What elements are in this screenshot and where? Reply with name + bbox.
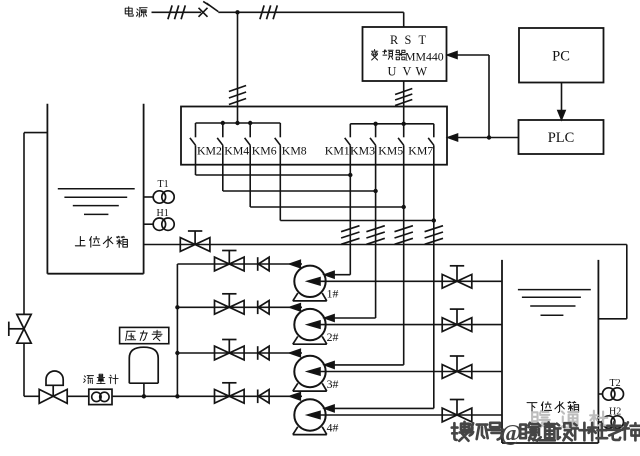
node: junction KM4/KM3 bbox=[373, 189, 377, 193]
node: junction KM2/KM1 bbox=[348, 173, 352, 177]
svg-text:@: @ bbox=[501, 421, 522, 447]
arrow: motor feed into pump 1# bbox=[325, 271, 335, 278]
pins: U V W output labels bbox=[388, 65, 428, 79]
svg-text:PLC: PLC bbox=[548, 130, 575, 146]
pipe: left riser down from tank inlet bbox=[23, 133, 25, 315]
pins: R S T input labels bbox=[390, 33, 427, 47]
label: pump 1# bbox=[327, 287, 339, 301]
svg-text:4#: 4# bbox=[327, 420, 339, 434]
wire: KM6 output down and right to row 3 bbox=[250, 145, 404, 207]
gate valve on suction line 3# bbox=[442, 356, 472, 378]
label: 下位水箱 bbox=[527, 402, 579, 413]
sensor T1 on upper tank bbox=[144, 179, 175, 203]
svg-text:3#: 3# bbox=[327, 377, 339, 391]
svg-text:T: T bbox=[419, 33, 427, 47]
watermark: faint 暖通家 bbox=[532, 410, 608, 428]
node: junction KM6/KM5 bbox=[402, 205, 406, 209]
isolation marks /// on VFD output wire bbox=[395, 89, 412, 106]
pipe: regulating valve to flow meter bbox=[67, 395, 89, 397]
node: right bus junction KM5/feed bbox=[402, 122, 406, 126]
svg-text:U: U bbox=[388, 65, 397, 79]
svg-text:2#: 2# bbox=[327, 330, 339, 344]
sensor H2 on lower tank bbox=[598, 406, 623, 428]
wire: KM3 output down to pump 2# motor bbox=[333, 145, 376, 318]
isolation marks /// on power line (right) bbox=[260, 5, 277, 19]
wire: KM2 output down and right to row 1 bbox=[196, 145, 351, 175]
wire: VFD UVW output down to right contactor bus bbox=[403, 81, 405, 124]
check valve on discharge branch 4# bbox=[258, 390, 269, 404]
node: left bus junction feed bbox=[235, 121, 239, 125]
wire: left bus inside box bbox=[196, 122, 281, 124]
wire: power line from breaker to VFD elbow bbox=[218, 11, 403, 13]
svg-text:KM3: KM3 bbox=[350, 144, 375, 158]
contactor KM7 (NO contact) bbox=[408, 124, 434, 158]
pump P1 circle bbox=[294, 266, 325, 297]
arrow: suction flow into pump 1# bbox=[308, 278, 320, 285]
check valve on discharge branch 1# bbox=[258, 257, 269, 271]
PC box bbox=[519, 28, 604, 83]
label: pump 2# bbox=[327, 330, 339, 344]
water surface in lower tank bbox=[518, 290, 591, 316]
wire: KM5 output down to pump 3# motor bbox=[333, 145, 404, 365]
pump P4 base bbox=[293, 427, 327, 435]
arrow: suction flow into pump 2# bbox=[308, 321, 320, 328]
label: 压力表 pressure gauge in box bbox=[120, 327, 169, 343]
pump P4 circle bbox=[294, 399, 325, 430]
node: junction of PLC line and VFD riser bbox=[487, 135, 491, 139]
wire: power line from 电源 to breaker bbox=[152, 11, 202, 13]
node: header junction row 3 bbox=[175, 351, 179, 355]
PLC box bbox=[519, 120, 604, 154]
svg-text:W: W bbox=[416, 65, 428, 79]
pump P1 base bbox=[293, 293, 327, 301]
wire: right bus inside box bbox=[350, 123, 434, 125]
svg-text:V: V bbox=[403, 65, 412, 79]
svg-text:KM8: KM8 bbox=[282, 144, 307, 158]
arrow: flow direction on discharge branch 2# bbox=[290, 304, 301, 311]
check valve on discharge branch 3# bbox=[258, 346, 269, 360]
svg-text:KM5: KM5 bbox=[378, 144, 403, 158]
pipe: suction line pump 3# from lower tank bbox=[320, 371, 502, 373]
gate valve on suction line 2# bbox=[442, 309, 472, 331]
label: pump 3# bbox=[327, 377, 339, 391]
node: junction KM8/KM7 bbox=[432, 218, 436, 222]
pipe: left riser lower section bbox=[23, 343, 25, 396]
arrow: flow direction on discharge branch 1# bbox=[290, 260, 301, 267]
arrow: flow direction on discharge branch 4# bbox=[290, 393, 301, 400]
label: 变频器MM440 bbox=[371, 49, 443, 63]
gate valve on drain line bbox=[180, 231, 210, 251]
contactor KM4 (NO contact) bbox=[217, 123, 249, 158]
wire: feed from power line down to left contactor bus bbox=[237, 12, 239, 123]
valve V1 on left riser (vertical gate valve) bbox=[9, 314, 31, 343]
pipe: suction line pump 1# from lower tank bbox=[320, 280, 502, 282]
wire: KM7 output down to pump 4# motor bbox=[333, 145, 434, 408]
svg-text:R: R bbox=[390, 33, 399, 47]
wire: PLC output to contactor box with arrow bbox=[448, 134, 519, 141]
svg-text:KM4: KM4 bbox=[224, 144, 249, 158]
isolation marks /// on KM5 motor wire bbox=[395, 226, 413, 245]
svg-text:S: S bbox=[405, 33, 412, 47]
wire: KM8 output down and right to row 4 bbox=[280, 145, 434, 220]
pipe: upper tank inlet at top left bbox=[24, 132, 47, 134]
arrow: motor feed into pump 4# bbox=[325, 405, 335, 412]
pipe: discharge branch 4# from header to pump bbox=[200, 395, 302, 397]
arrow: flow direction on discharge branch 3# bbox=[290, 349, 301, 356]
contactor KM1 (NO contact) bbox=[325, 124, 351, 158]
svg-text:T1: T1 bbox=[158, 179, 169, 190]
wire: power line elbow down into VFD R S T bbox=[403, 12, 405, 27]
lower tank 下位水箱 walls bbox=[502, 260, 598, 443]
gate valve on discharge branch 3# bbox=[215, 340, 245, 360]
svg-text:H1: H1 bbox=[157, 208, 169, 219]
node: header junction row 4 bbox=[175, 394, 179, 398]
gate valve on suction line 4# bbox=[442, 400, 472, 422]
pump P2 base bbox=[293, 336, 327, 344]
pump P2 circle bbox=[294, 309, 325, 340]
upper tank 上位水箱 walls bbox=[47, 104, 143, 274]
wire: PC to PLC arrow bbox=[558, 83, 565, 120]
VFD U1: 变频器 MM440 box bbox=[363, 27, 447, 81]
gate valve on discharge branch 2# bbox=[215, 294, 245, 314]
pipe: suction line pump 4# from lower tank bbox=[320, 414, 502, 416]
node: power junction above KM box bbox=[235, 10, 239, 14]
label: 流量计 flow meter bbox=[84, 374, 118, 384]
pressure gauge PG bell bbox=[129, 347, 158, 396]
isolation marks /// on KM3 motor wire bbox=[366, 226, 384, 245]
contactor cabinet box bbox=[181, 107, 447, 165]
label: pump 4# bbox=[327, 420, 339, 434]
arrow: suction flow into pump 4# bbox=[308, 411, 320, 418]
svg-text:PC: PC bbox=[552, 49, 570, 65]
pipe: discharge branch 2# from header to pump bbox=[177, 306, 302, 308]
isolation marks /// on KM7 motor wire bbox=[425, 226, 443, 245]
node: left bus junction KM6 bbox=[248, 121, 252, 125]
sensor T2 on lower tank bbox=[598, 378, 623, 400]
regulating valve V2 with dome actuator bbox=[39, 371, 67, 403]
arrow: motor feed into pump 2# bbox=[325, 315, 335, 322]
pipe: discharge header vertical bbox=[176, 264, 178, 396]
label: 电源 power source bbox=[125, 7, 147, 17]
isolation marks /// on left feed wire bbox=[229, 86, 246, 105]
arrow: motor feed into pump 3# bbox=[325, 362, 335, 369]
node: right bus junction KM3 bbox=[373, 122, 377, 126]
gate valve on discharge branch 4# bbox=[215, 383, 245, 403]
contactor KM8 (NO contact) bbox=[275, 123, 307, 158]
pump P3 circle bbox=[294, 356, 325, 387]
svg-text:1#: 1# bbox=[327, 287, 339, 301]
wire: KM4 output down and right to row 2 bbox=[223, 145, 376, 191]
pump P3 base bbox=[293, 383, 327, 391]
flow meter FM box with rotors bbox=[89, 389, 112, 404]
svg-text:KM7: KM7 bbox=[408, 144, 433, 158]
pipe: suction line pump 2# from lower tank bbox=[320, 324, 502, 326]
gate valve on discharge branch 1# bbox=[215, 251, 245, 271]
pipe: discharge branch 1# from header to pump bbox=[177, 263, 302, 265]
node: pressure gauge tap junction bbox=[142, 394, 146, 398]
wire: KM1 output down to pump 1# motor bbox=[333, 145, 350, 275]
breaker QF (x + blade) on power line bbox=[199, 1, 219, 16]
gate valve on suction line 1# bbox=[442, 266, 472, 288]
svg-text:KM1: KM1 bbox=[325, 144, 350, 158]
node: header junction row 2 bbox=[175, 305, 179, 309]
check valve on discharge branch 2# bbox=[258, 301, 269, 315]
svg-text:KM2: KM2 bbox=[197, 144, 222, 158]
wire: control riser from PLC line junction up to VFD bbox=[488, 55, 490, 138]
wire: control line into VFD right side with arrow bbox=[448, 52, 490, 59]
water surface in upper tank bbox=[58, 189, 135, 215]
contactor KM5 (NO contact) bbox=[378, 124, 404, 158]
pipe: flow meter to pump row 4 main bbox=[112, 395, 200, 397]
isolation marks /// on KM1 motor wire bbox=[341, 226, 359, 245]
node: left bus junction KM4 bbox=[221, 121, 225, 125]
label: 上位水箱 bbox=[75, 236, 127, 247]
contactor KM6 (NO contact) bbox=[245, 123, 277, 158]
pipe: bottom main to regulating valve bbox=[24, 395, 39, 397]
svg-text:MM440: MM440 bbox=[405, 49, 444, 63]
pipe: discharge branch 3# from header to pump bbox=[177, 352, 302, 354]
arrow: suction flow into pump 3# bbox=[308, 368, 320, 375]
contactor KM2 (NO contact) bbox=[190, 123, 222, 158]
sensor H1 on upper tank bbox=[144, 208, 175, 231]
contactor KM3 (NO contact) bbox=[350, 124, 376, 158]
svg-text:KM6: KM6 bbox=[252, 144, 277, 158]
isolation marks /// on power line (left) bbox=[168, 5, 185, 19]
watermark: 搜狐号@暖通设计杜老师 bbox=[452, 421, 640, 447]
pipe: upper tank drain line to lower tank bbox=[144, 245, 627, 319]
